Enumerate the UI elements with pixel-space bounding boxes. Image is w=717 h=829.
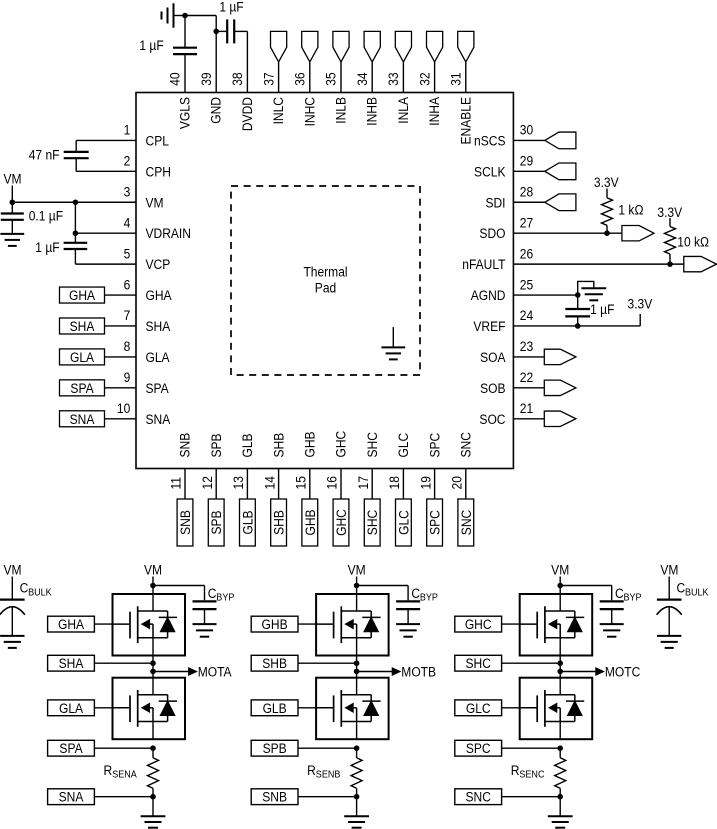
svg-text:VM: VM xyxy=(146,194,164,210)
svg-text:GLC: GLC xyxy=(396,510,412,535)
ground symbol: phase B xyxy=(344,797,369,828)
thermal pad (dashed outline) xyxy=(231,186,420,375)
junction dot: VM node phase A xyxy=(150,583,156,589)
label RSENC xyxy=(511,762,545,781)
svg-text:GLA: GLA xyxy=(146,349,170,365)
input arrow: nSCS (pin 30) xyxy=(513,132,576,149)
junction dot: SPC node xyxy=(557,745,563,751)
ground symbol: top-left (rotated) xyxy=(162,3,186,27)
svg-text:30: 30 xyxy=(520,122,533,138)
svg-text:INHC: INHC xyxy=(301,97,317,126)
svg-text:27: 27 xyxy=(520,215,533,231)
svg-text:GLB: GLB xyxy=(239,433,255,457)
svg-text:VCP: VCP xyxy=(146,256,171,272)
svg-text:nSCS: nSCS xyxy=(474,133,506,149)
svg-text:SHC: SHC xyxy=(364,510,380,535)
label RSENB xyxy=(307,762,341,781)
pin 5 VCP: number and name xyxy=(124,245,171,272)
svg-text:3.3V: 3.3V xyxy=(628,295,653,311)
capacitor C5 1 µF (VCP) xyxy=(64,233,136,264)
svg-text:GLB: GLB xyxy=(240,510,256,534)
off-page connector GLB xyxy=(251,700,316,716)
pin 36 INHC: number and name xyxy=(292,72,318,126)
svg-text:SHC: SHC xyxy=(364,432,380,457)
svg-text:GHC: GHC xyxy=(333,431,349,458)
off-page connector SPB (pin 12) xyxy=(208,469,224,547)
svg-text:Pad: Pad xyxy=(315,280,336,296)
wire: SDO pin 27 to pull-up node xyxy=(513,232,622,234)
junction dot: DVDD cap tap xyxy=(213,29,219,35)
svg-text:47 nF: 47 nF xyxy=(29,147,60,163)
svg-text:SDI: SDI xyxy=(485,194,505,210)
svg-text:MOTA: MOTA xyxy=(198,664,232,680)
power net VM (phase B) xyxy=(348,562,366,594)
pin 34 INHB: number and name xyxy=(354,72,380,125)
svg-text:SNA: SNA xyxy=(70,411,95,427)
svg-text:34: 34 xyxy=(354,72,370,85)
svg-text:37: 37 xyxy=(260,72,276,85)
svg-text:1 µF: 1 µF xyxy=(35,239,59,255)
svg-text:1 µF: 1 µF xyxy=(590,301,614,317)
svg-text:GHA: GHA xyxy=(146,287,172,303)
svg-text:C: C xyxy=(677,580,686,596)
power net VM (CBULK right) xyxy=(660,562,678,599)
svg-text:MOTC: MOTC xyxy=(605,664,640,680)
svg-text:6: 6 xyxy=(124,276,131,292)
svg-text:1 kΩ: 1 kΩ xyxy=(618,202,643,218)
svg-text:SNA: SNA xyxy=(59,789,84,805)
svg-text:31: 31 xyxy=(448,72,464,85)
off-page connector GHC xyxy=(455,616,520,632)
output arrow: SDO xyxy=(622,225,654,240)
junction dot: SDO node xyxy=(604,230,610,236)
svg-text:29: 29 xyxy=(520,153,533,169)
capacitor C1 1 µF (VGLS) xyxy=(173,16,197,93)
pin 23 SOA: number and name xyxy=(480,338,533,365)
junction dot: nFAULT node xyxy=(667,261,673,267)
pin 6 GHA: number and name xyxy=(124,276,172,303)
pin 27 SDO: number and name xyxy=(479,215,533,242)
svg-text:10 kΩ: 10 kΩ xyxy=(677,234,709,250)
svg-text:GLB: GLB xyxy=(263,700,287,716)
svg-text:SENB: SENB xyxy=(316,769,341,781)
label: 1 µF (VCP cap) xyxy=(35,239,59,255)
label: 47 nF xyxy=(29,147,60,163)
svg-text:VM: VM xyxy=(3,562,21,578)
off-page connector SNC (pin 20) xyxy=(458,469,474,547)
output arrow: SOA (pin 23) xyxy=(513,349,576,364)
off-page connector SNA xyxy=(48,789,153,805)
off-page connector SPC (pin 19) xyxy=(427,469,443,547)
svg-text:SPB: SPB xyxy=(208,510,224,534)
transistor Q3 (high-side NMOS, phase B) xyxy=(316,594,389,656)
junction dot: VM node phase C xyxy=(557,583,563,589)
pin 39 GND: number and name xyxy=(198,72,224,123)
output arrow: SOC (pin 21) xyxy=(513,411,576,426)
power net VM (phase A) xyxy=(144,562,162,594)
junction dot: VM node phase B xyxy=(354,583,360,589)
capacitor C2 1 µF (DVDD) xyxy=(216,19,247,92)
svg-text:4: 4 xyxy=(124,215,131,231)
transistor Q5 (high-side NMOS, phase C) xyxy=(520,594,593,656)
svg-text:SHB: SHB xyxy=(270,432,286,457)
svg-text:8: 8 xyxy=(124,338,131,354)
svg-text:1 µF: 1 µF xyxy=(219,0,243,15)
svg-text:C: C xyxy=(20,580,29,596)
label MOTB xyxy=(401,664,436,680)
junction dot: SHC node xyxy=(557,660,563,666)
off-page connector SPB xyxy=(251,740,356,756)
pin 40 VGLS: number and name xyxy=(167,72,193,129)
ground symbol: phase C xyxy=(548,797,573,828)
capacitor CBYP (phase B) xyxy=(357,586,421,625)
label CBYP (phase B) xyxy=(411,585,438,604)
pin 25 AGND: number and name xyxy=(471,276,533,303)
svg-text:17: 17 xyxy=(355,476,371,489)
pin 17 SHC: number and name xyxy=(355,432,380,489)
junction dot: VREF node xyxy=(575,323,581,329)
capacitor C3 47 nF (CPL-CPH) xyxy=(64,140,136,171)
svg-text:BYP: BYP xyxy=(624,592,642,604)
svg-text:GLA: GLA xyxy=(59,700,83,716)
svg-text:35: 35 xyxy=(323,72,339,85)
svg-text:R: R xyxy=(511,762,520,778)
off-page connector GHC (pin 16) xyxy=(333,469,349,547)
junction dot: SHB node xyxy=(354,660,360,666)
svg-text:32: 32 xyxy=(416,72,432,85)
svg-text:SOA: SOA xyxy=(480,349,506,365)
off-page connector GLB (pin 13) xyxy=(240,469,256,547)
pin 9 SPA: number and name xyxy=(124,369,169,396)
capacitor CBULK (right, polarized) xyxy=(657,600,682,636)
svg-text:SHB: SHB xyxy=(262,655,287,671)
svg-text:SDO: SDO xyxy=(479,225,505,241)
svg-text:VM: VM xyxy=(3,171,21,187)
svg-text:INHB: INHB xyxy=(364,97,380,126)
svg-text:GHB: GHB xyxy=(302,431,318,457)
svg-text:SOB: SOB xyxy=(480,380,506,396)
svg-text:23: 23 xyxy=(520,338,533,354)
IC U1 package outline xyxy=(136,93,513,469)
svg-text:INLA: INLA xyxy=(395,97,411,124)
svg-text:SNC: SNC xyxy=(458,432,474,457)
svg-text:GHA: GHA xyxy=(58,616,84,632)
junction dot: SNA node xyxy=(150,794,156,800)
svg-text:GHC: GHC xyxy=(333,509,349,536)
pin 29 SCLK: number and name xyxy=(474,153,533,180)
svg-text:SPC: SPC xyxy=(426,433,442,458)
off-page connector SHB (pin 14) xyxy=(271,469,287,547)
junction dot: AGND node xyxy=(575,292,581,298)
pin 26 nFAULT: number and name xyxy=(462,245,533,272)
pin 32 INHA: number and name xyxy=(416,72,442,125)
svg-text:22: 22 xyxy=(520,369,533,385)
ground symbol: thermal pad xyxy=(381,327,405,359)
svg-text:26: 26 xyxy=(520,245,533,261)
pin 13 GLB: number and name xyxy=(230,433,255,489)
input arrow: ENABLE (pin 31) xyxy=(458,31,474,92)
output arrow: SOB (pin 22) xyxy=(513,380,576,395)
junction dot: MOTA node xyxy=(150,669,156,675)
svg-text:7: 7 xyxy=(124,307,131,323)
svg-text:GHC: GHC xyxy=(465,616,492,632)
svg-text:INLC: INLC xyxy=(270,97,286,124)
svg-text:40: 40 xyxy=(167,72,183,85)
svg-text:10: 10 xyxy=(117,400,130,416)
svg-text:14: 14 xyxy=(261,476,277,489)
resistor RSENC xyxy=(555,748,566,797)
pin 38 DVDD: number and name xyxy=(229,72,255,131)
svg-text:SNA: SNA xyxy=(146,411,171,427)
svg-text:20: 20 xyxy=(449,476,465,489)
label: 1 µF (DVDD cap) xyxy=(219,0,243,15)
svg-text:Thermal: Thermal xyxy=(303,264,347,280)
junction dot: MOTC node xyxy=(557,669,563,675)
pin 8 GLA: number and name xyxy=(124,338,170,365)
svg-text:nFAULT: nFAULT xyxy=(462,256,505,272)
pin 3 VM: number and name xyxy=(124,184,164,211)
power net VM (CBULK left) xyxy=(3,562,21,599)
svg-text:SOC: SOC xyxy=(479,411,505,427)
junction dot: VDRAIN / VCP cap tap xyxy=(73,230,79,236)
pin 20 SNC: number and name xyxy=(449,432,474,489)
label MOTC xyxy=(605,664,640,680)
junction dot: VGLS/GND node xyxy=(182,13,188,19)
svg-text:SNC: SNC xyxy=(465,789,490,805)
label: 1 kΩ xyxy=(618,202,643,218)
svg-text:SNB: SNB xyxy=(262,789,287,805)
svg-text:21: 21 xyxy=(520,400,533,416)
off-page connector SHA (pin 7) xyxy=(60,318,137,334)
wire: VGLS node to GND pin 39 xyxy=(185,16,216,93)
input arrow: INLB (pin 35) xyxy=(333,31,349,92)
svg-text:SHA: SHA xyxy=(146,318,171,334)
off-page connector SNC xyxy=(455,789,560,805)
svg-text:2: 2 xyxy=(124,153,131,169)
pin 37 INLC: number and name xyxy=(260,72,286,124)
svg-text:11: 11 xyxy=(168,477,184,489)
transistor Q1 (high-side NMOS, phase A) xyxy=(113,594,186,656)
svg-text:33: 33 xyxy=(385,72,401,85)
label MOTA xyxy=(198,664,232,680)
svg-text:GLC: GLC xyxy=(466,700,491,716)
svg-text:VM: VM xyxy=(144,562,162,578)
svg-text:SNB: SNB xyxy=(177,510,193,535)
pin 2 CPH: number and name xyxy=(124,153,171,180)
label CBULK (right) xyxy=(677,580,710,599)
svg-text:SHB: SHB xyxy=(271,510,287,535)
wire: VM net to pin 3 VM xyxy=(12,186,136,203)
svg-text:SNB: SNB xyxy=(177,432,193,457)
pin 16 GHC: number and name xyxy=(324,431,349,490)
svg-text:R: R xyxy=(307,762,316,778)
off-page connector GHA (pin 6) xyxy=(60,287,137,303)
svg-text:3.3V: 3.3V xyxy=(594,174,619,190)
wire: phase B half-bridge chain xyxy=(356,656,358,678)
svg-text:39: 39 xyxy=(198,72,214,85)
pin 21 SOC: number and name xyxy=(479,400,533,427)
svg-text:VM: VM xyxy=(660,562,678,578)
svg-text:9: 9 xyxy=(124,369,131,385)
off-page connector SPA (pin 9) xyxy=(60,380,137,396)
label CBYP (phase A) xyxy=(208,585,235,604)
svg-text:18: 18 xyxy=(386,476,402,489)
pin 7 SHA: number and name xyxy=(124,307,171,334)
junction dot: SPA node xyxy=(150,745,156,751)
pin 19 SPC: number and name xyxy=(417,433,442,490)
svg-text:R: R xyxy=(104,762,113,778)
svg-text:CPL: CPL xyxy=(146,133,169,149)
svg-text:VM: VM xyxy=(551,562,569,578)
resistor RSENA xyxy=(148,748,159,797)
junction dot: SNB node xyxy=(354,794,360,800)
off-page connector GHB (pin 15) xyxy=(302,469,318,547)
off-page connector SHB xyxy=(251,655,356,671)
svg-text:GLA: GLA xyxy=(70,349,94,365)
svg-text:INHA: INHA xyxy=(426,97,442,126)
svg-text:VGLS: VGLS xyxy=(177,97,193,129)
capacitor C4 0.1 µF (VM) xyxy=(1,202,24,234)
svg-text:12: 12 xyxy=(199,476,215,489)
off-page connector GHB xyxy=(251,616,316,632)
ground symbol: CBYP phase B xyxy=(396,624,420,637)
ground symbol: VM bypass xyxy=(0,234,24,246)
svg-text:SPB: SPB xyxy=(263,740,287,756)
pin 14 SHB: number and name xyxy=(261,432,286,489)
svg-text:SPC: SPC xyxy=(427,510,443,535)
input arrow: INHA (pin 32) xyxy=(427,31,443,92)
pin 10 SNA: number and name xyxy=(117,400,171,427)
output arrow: MOTC xyxy=(560,668,604,675)
output arrow: MOTA xyxy=(153,668,197,675)
pin 24 VREF: number and name xyxy=(473,307,533,334)
label: 1 µF (VREF cap) xyxy=(590,301,614,317)
off-page connector GLA (pin 8) xyxy=(60,349,137,365)
wire: phase C half-bridge chain xyxy=(559,656,561,678)
pin 1 CPL: number and name xyxy=(124,122,169,149)
svg-text:SENC: SENC xyxy=(519,769,544,781)
transistor Q2 (low-side NMOS, phase A) xyxy=(113,678,186,740)
wire: nFAULT pin 26 to pull-up node xyxy=(513,263,683,265)
svg-text:VDRAIN: VDRAIN xyxy=(146,225,191,241)
ground symbol: CBYP phase A xyxy=(193,624,217,637)
pin 4 VDRAIN: number and name xyxy=(124,215,191,242)
transistor Q6 (low-side NMOS, phase C) xyxy=(520,678,593,740)
off-page connector GLA xyxy=(48,700,113,716)
resistor RSENB xyxy=(351,748,362,797)
label CBYP (phase C) xyxy=(615,585,642,604)
svg-text:BYP: BYP xyxy=(420,592,438,604)
svg-text:GHA: GHA xyxy=(69,287,95,303)
svg-text:13: 13 xyxy=(230,476,246,489)
resistor R2 10 kΩ (nFAULT pull-up) xyxy=(665,218,676,264)
svg-text:BYP: BYP xyxy=(216,592,234,604)
svg-text:SPA: SPA xyxy=(70,380,93,396)
off-page connector GLC (pin 18) xyxy=(396,469,412,547)
input arrow: INLA (pin 33) xyxy=(395,31,411,92)
pin 35 INLB: number and name xyxy=(323,72,349,123)
label CBULK (left) xyxy=(20,580,53,599)
svg-text:GLC: GLC xyxy=(395,433,411,458)
wire: VREF pin 24 to 3.3V xyxy=(513,314,640,326)
off-page connector SHC (pin 17) xyxy=(364,469,380,547)
svg-text:SPA: SPA xyxy=(59,740,82,756)
svg-text:BULK: BULK xyxy=(685,587,709,599)
capacitor CBULK (left, polarized) xyxy=(0,600,25,636)
input arrow: INHB (pin 34) xyxy=(364,31,380,92)
ground symbol: phase A xyxy=(141,797,166,828)
wire: AGND pin 25 xyxy=(513,294,577,296)
output arrow: MOTB xyxy=(357,668,401,675)
off-page connector SNB (pin 11) xyxy=(177,469,193,547)
ground symbol: CBULK left xyxy=(0,636,24,648)
svg-text:3.3V: 3.3V xyxy=(657,204,682,220)
svg-text:SHC: SHC xyxy=(465,655,490,671)
svg-text:AGND: AGND xyxy=(471,287,506,303)
svg-text:1: 1 xyxy=(124,122,131,138)
svg-text:INLB: INLB xyxy=(333,97,349,124)
pin 31 ENABLE: number and name xyxy=(448,72,474,144)
junction dot: SNC node xyxy=(557,794,563,800)
svg-text:24: 24 xyxy=(520,307,533,323)
svg-text:BULK: BULK xyxy=(28,587,52,599)
svg-text:SCLK: SCLK xyxy=(474,163,506,179)
power label 3.3V (VREF) xyxy=(628,295,653,311)
transistor Q4 (low-side NMOS, phase B) xyxy=(316,678,389,740)
input arrow: SDI (pin 28) xyxy=(513,194,576,211)
pin 33 INLA: number and name xyxy=(385,72,411,123)
svg-text:36: 36 xyxy=(292,72,308,85)
label RSENA xyxy=(104,762,138,781)
resistor R1 1 kΩ (SDO pull-up) xyxy=(602,189,613,234)
pin 15 GHB: number and name xyxy=(293,431,318,489)
wire: VM branch down to VDRAIN pin 4 xyxy=(75,202,136,233)
wire: phase A half-bridge chain xyxy=(152,656,154,678)
label: 0.1 µF xyxy=(29,208,63,224)
pin 12 SPB: number and name xyxy=(199,433,224,489)
ground symbol: AGND xyxy=(578,281,607,300)
svg-text:DVDD: DVDD xyxy=(239,97,255,131)
label: 1 µF (VGLS cap) xyxy=(139,37,163,53)
ground symbol: CBULK right xyxy=(657,636,681,648)
label: 10 kΩ xyxy=(677,234,709,250)
svg-text:VREF: VREF xyxy=(473,318,505,334)
off-page connector SNA (pin 10) xyxy=(60,411,137,427)
label: Thermal Pad xyxy=(303,264,347,296)
svg-text:C: C xyxy=(208,585,217,601)
power label 3.3V (nFAULT pull-up) xyxy=(657,204,682,220)
svg-text:GHB: GHB xyxy=(302,509,318,535)
svg-text:3: 3 xyxy=(124,184,131,200)
capacitor CBYP (phase C) xyxy=(560,586,624,625)
svg-text:5: 5 xyxy=(124,245,131,261)
svg-text:CPH: CPH xyxy=(146,163,171,179)
svg-text:16: 16 xyxy=(324,476,340,489)
input arrow: INHC (pin 36) xyxy=(302,31,318,92)
power net VM (phase C) xyxy=(551,562,569,594)
pin 22 SOB: number and name xyxy=(480,369,533,396)
off-page connector SPC xyxy=(455,740,560,756)
svg-text:MOTB: MOTB xyxy=(401,664,436,680)
svg-text:ENABLE: ENABLE xyxy=(457,97,473,145)
input arrow: INLC (pin 37) xyxy=(271,31,287,92)
svg-text:GND: GND xyxy=(208,97,224,124)
off-page connector SHC xyxy=(455,655,560,671)
svg-text:15: 15 xyxy=(293,476,309,489)
off-page connector SNB xyxy=(251,789,356,805)
off-page connector GHA xyxy=(48,616,113,632)
svg-text:19: 19 xyxy=(417,476,433,489)
